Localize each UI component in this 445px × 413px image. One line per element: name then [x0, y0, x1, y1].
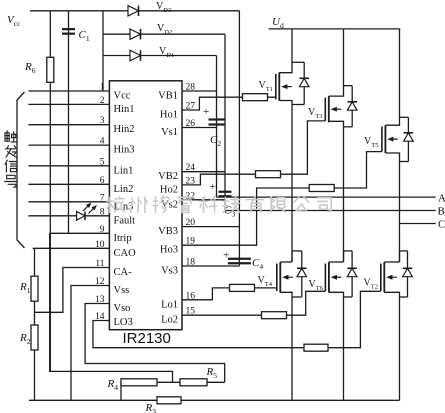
- svg-text:B: B: [438, 206, 445, 218]
- svg-text:Vcc: Vcc: [114, 91, 131, 102]
- svg-text:A: A: [438, 193, 445, 205]
- svg-text:VT6: VT6: [309, 279, 324, 292]
- svg-text:R2: R2: [19, 332, 31, 346]
- svg-text:R5: R5: [206, 366, 218, 380]
- svg-text:C1: C1: [79, 29, 90, 43]
- svg-text:Hin2: Hin2: [114, 124, 135, 135]
- svg-text:R4: R4: [107, 378, 119, 392]
- svg-text:CAO: CAO: [114, 248, 137, 259]
- svg-text:VB3: VB3: [158, 226, 178, 237]
- svg-text:Ho1: Ho1: [160, 110, 178, 121]
- svg-text:C4: C4: [252, 257, 263, 271]
- svg-text:R3: R3: [145, 402, 157, 413]
- svg-text:Vso: Vso: [114, 303, 131, 314]
- svg-text:Hin1: Hin1: [114, 104, 135, 115]
- svg-text:Vss: Vss: [114, 285, 130, 296]
- svg-text:Ho2: Ho2: [160, 184, 178, 195]
- svg-text:Ud: Ud: [272, 16, 284, 30]
- svg-text:VT5: VT5: [364, 136, 378, 149]
- svg-text:Vs3: Vs3: [161, 266, 178, 277]
- svg-text:+: +: [223, 250, 229, 262]
- svg-text:VT1: VT1: [259, 80, 273, 93]
- svg-text:+: +: [210, 181, 216, 193]
- svg-text:R6: R6: [24, 61, 36, 75]
- svg-text:Lin1: Lin1: [114, 165, 134, 176]
- svg-text:IR2130: IR2130: [123, 330, 171, 347]
- svg-text:VD2: VD2: [157, 23, 172, 36]
- svg-text:VD1: VD1: [159, 46, 174, 59]
- svg-text:VT2: VT2: [364, 278, 378, 291]
- svg-text:VD3: VD3: [156, 1, 171, 14]
- svg-text:Lo2: Lo2: [161, 315, 178, 326]
- svg-text:Fault: Fault: [114, 215, 136, 226]
- svg-text:VB1: VB1: [158, 91, 178, 102]
- svg-text:C: C: [438, 219, 445, 231]
- svg-text:Ho3: Ho3: [160, 245, 178, 256]
- svg-text:Vcc: Vcc: [7, 14, 21, 28]
- svg-text:Vs1: Vs1: [161, 127, 178, 138]
- svg-text:Hin3: Hin3: [114, 145, 135, 156]
- svg-text:Lo1: Lo1: [161, 299, 178, 310]
- svg-text:Itrip: Itrip: [114, 233, 132, 244]
- svg-text:VB2: VB2: [158, 171, 178, 182]
- svg-text:Lin2: Lin2: [114, 184, 134, 195]
- svg-text:C2: C2: [210, 134, 221, 148]
- svg-text:R1: R1: [19, 281, 31, 295]
- svg-text:LO3: LO3: [114, 317, 133, 328]
- svg-text:+: +: [203, 106, 209, 118]
- svg-text:VT4: VT4: [258, 275, 273, 288]
- svg-text:CA-: CA-: [114, 267, 133, 278]
- svg-text:VT3: VT3: [308, 107, 322, 120]
